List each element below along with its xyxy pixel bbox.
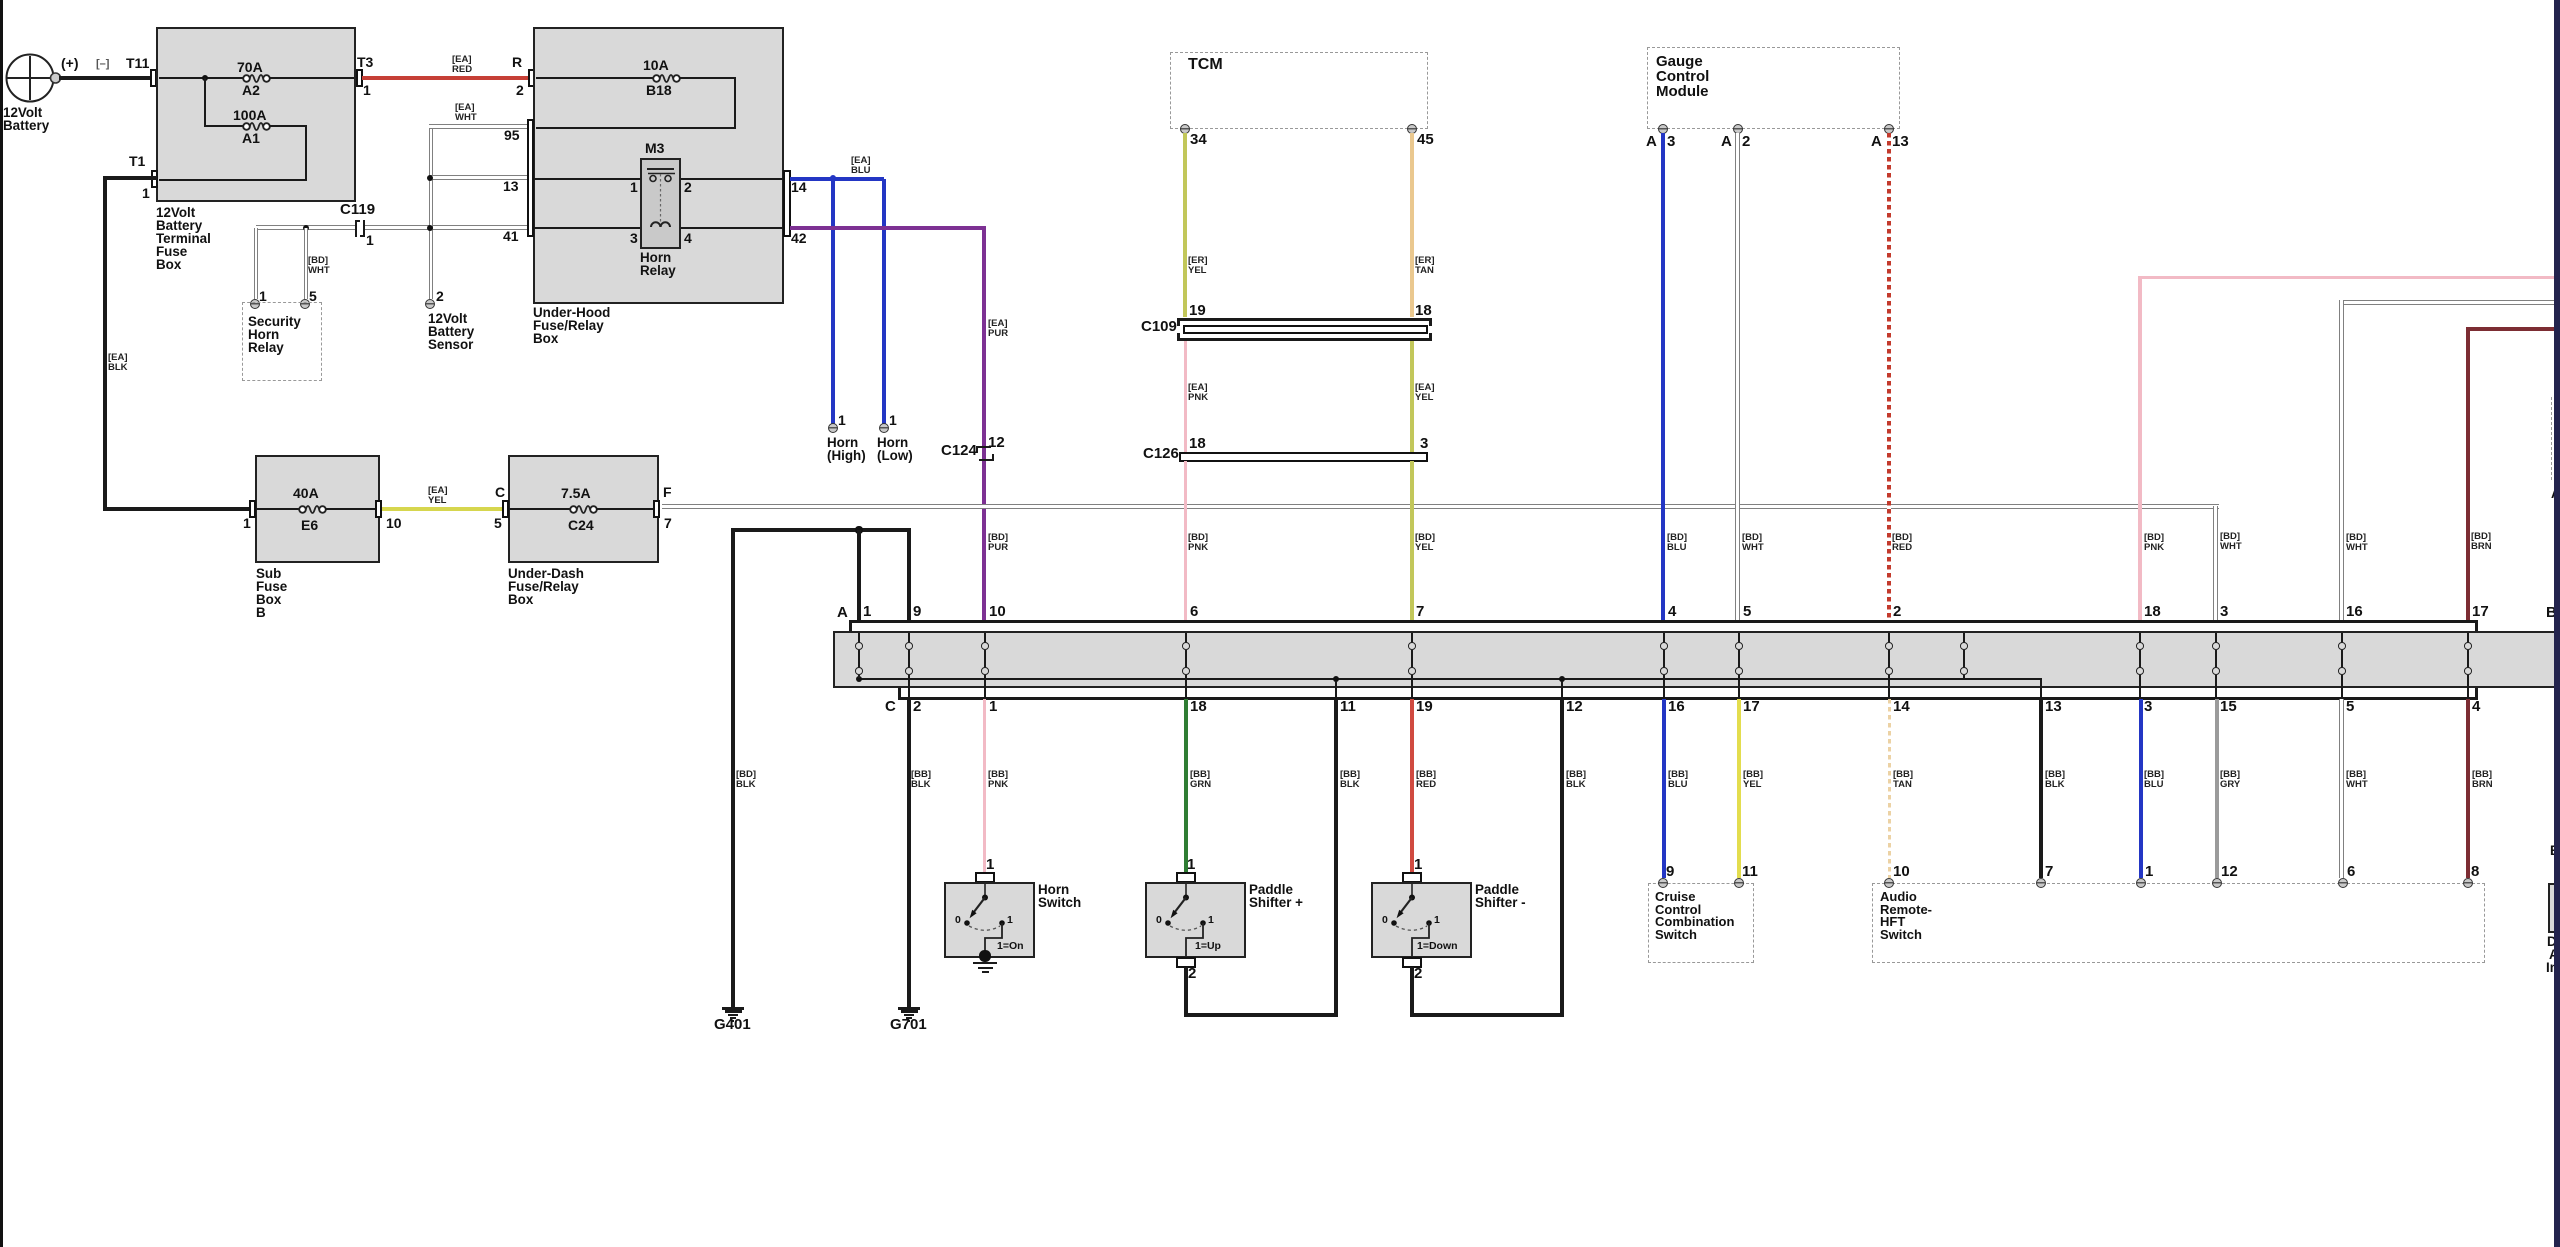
pin 5 Security Horn Relay [300, 299, 310, 309]
relay pin 4 [684, 232, 692, 246]
fuse box label [156, 206, 211, 271]
horn switch ground symbol [973, 962, 997, 965]
Gauge Control Module label [1656, 54, 1709, 99]
label E6 [301, 519, 318, 533]
pin 10 label [1893, 865, 1910, 880]
pin 2 label [436, 290, 444, 304]
pin 7 label [664, 517, 672, 531]
wire [BB] BLK from C11 [1334, 699, 1338, 1017]
pin 95 [504, 129, 520, 143]
pin 34 label [1190, 133, 1207, 148]
bus connector C bar [898, 697, 2478, 700]
label EA YEL [428, 486, 448, 506]
label C [495, 486, 505, 500]
battery label [3, 106, 49, 132]
wire B18 right [679, 77, 736, 79]
wire relay pin2 to pin14 [681, 178, 784, 180]
wire to pin 13 [429, 175, 527, 180]
connector C109 [1177, 318, 1432, 321]
wire [BD] BRN horizontal [2467, 327, 2560, 331]
wire to bus A1 [857, 530, 861, 622]
Audio Remote-HFT Switch box [1872, 883, 2485, 963]
label 1=On [997, 941, 1024, 951]
under-hood box label [533, 306, 610, 345]
label C124 [941, 444, 977, 459]
bus C pin 1 [989, 700, 997, 715]
label ER TAN [1415, 256, 1435, 276]
terminal pin 10 [375, 500, 382, 518]
label T3 [357, 56, 373, 70]
terminal T11 [150, 69, 157, 87]
label EA BLK [108, 353, 128, 373]
bus pin stub A18/C3 [2139, 633, 2141, 643]
junction dot A1 [856, 676, 863, 683]
bus pin stub A7/C19 [1411, 633, 1413, 643]
relay pin 3 [630, 232, 638, 246]
ground G401 [722, 1007, 744, 1010]
label BD PNK [1188, 533, 1208, 553]
cut-off label A [2551, 487, 2560, 500]
wire A2 to T3 [269, 77, 354, 79]
wire down [734, 77, 736, 129]
bus A pin 2 [1893, 605, 1901, 620]
pin 41 [503, 230, 519, 244]
bus C pin 14 [1893, 700, 1910, 715]
bus A pin 1 [863, 605, 871, 620]
pin 1 label [1187, 858, 1195, 873]
Cruise Control Combination Switch label [1655, 891, 1734, 941]
dashed fragment right edge [2551, 397, 2552, 480]
bus A pin 17 [2472, 605, 2489, 620]
Paddle Shifter + label [1249, 883, 1303, 909]
wire C24 to pin F [596, 508, 656, 510]
label 1=Up [1195, 941, 1221, 951]
Paddle Shifter - label [1475, 883, 1526, 909]
Horn Switch label [1038, 883, 1081, 909]
wire R to fuse B18 [536, 77, 656, 79]
connector bracket pins 95/13/41 [527, 119, 535, 237]
label 1=Down [1417, 941, 1458, 951]
pin 11 [1734, 878, 1744, 888]
pin 5 label [309, 290, 317, 304]
wire to relay pin 1 [254, 228, 259, 299]
wire [BB] RED to Paddle Shifter - [1410, 699, 1414, 872]
bus C pin 19 [1416, 700, 1433, 715]
pin 8 [2463, 878, 2473, 888]
ground G701 [898, 1007, 920, 1010]
pin 1 T3 [363, 84, 371, 98]
Paddle Shifter + internals [1126, 882, 1246, 958]
label BD YEL [1415, 533, 1435, 553]
junction dot [855, 526, 862, 533]
bus pin stub A5/C17 [1738, 633, 1740, 643]
wire to fuse E6 [256, 508, 302, 510]
bus pin stub A1 [858, 633, 860, 643]
wire [BD] PNK vertical [2138, 276, 2141, 621]
Security Horn Relay box [242, 302, 322, 381]
label C [885, 700, 896, 715]
junction dot [427, 175, 433, 181]
bus pin stub (ground) [1963, 633, 1965, 643]
bus pin stub A2/C14 [1888, 633, 1890, 643]
wire [EA] PNK [1184, 341, 1187, 453]
label (+) [61, 57, 79, 71]
wire C119 to pin 41 [365, 225, 527, 230]
wire [EA] PUR vertical [982, 226, 986, 621]
wire [EA] WHT vertical [429, 124, 434, 299]
terminal T1 [151, 170, 158, 188]
wire pin 2 down [1184, 967, 1188, 1017]
relay pin 2 [684, 181, 692, 195]
wire [ER] TAN [1410, 133, 1414, 317]
terminal pin 2 Paddle Shifter - [1402, 957, 1422, 968]
bus C pin 3 [2144, 700, 2152, 715]
pin 1 T1 [142, 187, 150, 201]
label C109 [1141, 320, 1177, 335]
pin 9 [1658, 878, 1668, 888]
wire [BB] YEL to Cruise pin 11 [1737, 699, 1741, 878]
pin 1 Horn High [828, 423, 838, 433]
fuse E6 40A [296, 501, 329, 518]
wire [BD] WHT from F/7 across [662, 504, 2219, 509]
pin 8 label [2471, 865, 2479, 880]
label R [512, 56, 522, 70]
wire [EA] RED [362, 76, 528, 80]
terminal pin 1 Paddle Shifter + [1176, 872, 1196, 883]
wire to C12 column [1410, 1013, 1564, 1017]
Cruise Control Combination Switch box [1648, 883, 1754, 963]
pin 3 [1667, 135, 1675, 150]
wire [BB] BLK to Audio pin 7 [2039, 699, 2043, 878]
bus A pin 18 [2144, 605, 2161, 620]
12Volt Battery Sensor label [428, 312, 474, 351]
bus pin stub A9/C2 [908, 633, 910, 643]
pin 2 R [516, 84, 524, 98]
bus C pin 15 [2220, 700, 2237, 715]
pin 34 TCM [1180, 124, 1190, 134]
pin 1 Security Horn Relay [250, 299, 260, 309]
label BD PNK [2144, 533, 2164, 553]
pin 1 label [986, 858, 994, 873]
pin 6 [2338, 878, 2348, 888]
relay internals [640, 158, 681, 249]
bus pin stub A4/C16 [1663, 633, 1665, 643]
pin 1 label [838, 414, 846, 428]
label F [663, 486, 672, 500]
junction dot [427, 225, 433, 231]
label A [1721, 135, 1732, 150]
fuse A1 100A [240, 118, 273, 135]
pin A13 Gauge [1884, 124, 1894, 134]
Paddle Shifter - internals [1352, 882, 1472, 958]
pin A2 Gauge [1733, 124, 1743, 134]
terminal R [528, 69, 535, 87]
pin 1 label [1414, 858, 1422, 873]
terminal T3 [356, 69, 363, 87]
wire [BD] BLU [1661, 133, 1665, 621]
bus A pin 16 [2346, 605, 2363, 620]
wire to bus A9 [907, 530, 911, 622]
label [-] [96, 59, 109, 70]
bus connector A bar [849, 620, 2478, 623]
pin 10 label [386, 517, 402, 531]
bus A pin 6 [1190, 605, 1198, 620]
wire [EA] BLU horizontal [790, 177, 884, 181]
wire [BB] BRN to Audio pin 8 [2466, 699, 2470, 878]
label B18 [646, 84, 672, 98]
terminal pin 1 [249, 500, 256, 518]
pin 1 label [2145, 865, 2153, 880]
label 1 [1434, 915, 1440, 925]
wire [BD] WHT horizontal [256, 225, 355, 230]
label 1 [1208, 915, 1214, 925]
bus A pin 9 [913, 605, 921, 620]
bus C pin 4 [2472, 700, 2480, 715]
label BD WHT [1742, 533, 1764, 553]
Security Horn Relay label [248, 315, 301, 354]
wire [BB] BLU to Cruise pin 9 [1662, 699, 1666, 878]
Horn Low label [877, 436, 913, 462]
wire to C11 column [1184, 1013, 1338, 1017]
wire T1 stub [103, 176, 157, 180]
pin 13 [1892, 135, 1909, 150]
label BD WHT [2346, 533, 2368, 553]
wire battery to T11 [59, 76, 152, 80]
Under-Hood Fuse/Relay Box [533, 27, 784, 304]
label EA YEL [1415, 383, 1435, 403]
bus C pin 5 [2346, 700, 2354, 715]
wire A1 right [269, 125, 306, 127]
pin 19 label [1189, 304, 1206, 319]
label G401 [714, 1018, 751, 1033]
wire E6 to pin 10 [325, 508, 377, 510]
wire [BB] WHT to Audio pin 6 [2339, 699, 2344, 878]
wire [EA] YEL [382, 507, 504, 510]
fuse A2 70A [240, 70, 273, 87]
Paddle Shifter + box [1145, 882, 1246, 958]
label C126 [1143, 447, 1179, 462]
Paddle Shifter - box [1371, 882, 1472, 958]
wire [BD] BLK to G401 [731, 528, 735, 1008]
wire to relay pin 5 [304, 228, 309, 299]
label 0 [1382, 915, 1388, 925]
label D [2547, 935, 2557, 948]
bus C pin 13 [2045, 700, 2062, 715]
label A1 [242, 132, 260, 146]
bus pin stub C11 [1335, 681, 1337, 697]
pin 2 label [1414, 967, 1422, 982]
wire [BD] WHT horizontal [2341, 300, 2560, 305]
pin 18 label [1189, 437, 1206, 452]
label A [1871, 135, 1882, 150]
wire [BD] BRN vertical [2466, 327, 2470, 621]
pin 2 12Volt Battery Sensor [425, 299, 435, 309]
right viewer strip [2554, 0, 2560, 1247]
label 0 [955, 915, 961, 925]
wire to pin 95 [536, 127, 736, 129]
wire [BD] RED dashed [1887, 133, 1891, 621]
label T1 [129, 155, 145, 169]
wire pin41 to relay pin3 [534, 227, 640, 229]
pin 1 Horn Low [879, 423, 889, 433]
label EA PNK [1188, 383, 1208, 403]
wire [EA] BLK horizontal [103, 507, 253, 511]
wire [ER] YEL [1183, 133, 1187, 317]
pin 2 label [1188, 967, 1196, 982]
cut-off component at right edge [2548, 883, 2557, 933]
bus A pin 7 [1416, 605, 1424, 620]
bus pin stub C12 [1561, 681, 1563, 697]
wire to Horn High [831, 179, 835, 424]
wire to Horn Low [882, 179, 886, 424]
pin 45 TCM [1407, 124, 1417, 134]
connector C126 [1179, 452, 1428, 462]
pin 13 [503, 180, 519, 194]
pin 7 label [2045, 865, 2053, 880]
pin 1 C119 [366, 234, 374, 248]
TCM box [1170, 52, 1428, 129]
wire [BD] WHT [1735, 133, 1740, 621]
wire relay pin4 to pin42 [681, 227, 784, 229]
12Volt Battery Terminal Fuse Box [156, 27, 356, 202]
wire [EA] BLK vertical [103, 177, 107, 511]
label T11 [126, 57, 149, 71]
wire [BB] BLK from C12 [1560, 699, 1564, 1017]
pin 12 label [2221, 865, 2238, 880]
junction dot C12 [1559, 676, 1566, 683]
bus C pin 2 [913, 700, 921, 715]
bus A pin 3 [2220, 605, 2228, 620]
junction dot blue [830, 175, 837, 182]
ground dot [979, 950, 990, 961]
label A [2549, 948, 2559, 961]
pin 12 C124 [988, 436, 1005, 451]
pin A3 Gauge [1658, 124, 1668, 134]
bus pin stub A6/C18 [1185, 633, 1187, 643]
bus C pin 16 [1668, 700, 1685, 715]
pin 1 label [259, 290, 267, 304]
relay M3 Horn Relay [640, 158, 681, 249]
pin 3 label [1420, 437, 1428, 452]
label BD BRN [2471, 532, 2492, 552]
Horn High label [827, 436, 866, 462]
label 1 [1007, 915, 1013, 925]
pin 1 label [243, 517, 251, 531]
pin 7 [2036, 878, 2046, 888]
wire [BD] WHT vertical [2339, 300, 2344, 621]
label BD WHT [2220, 532, 2242, 552]
wire to fuse C24 [509, 508, 573, 510]
pin 11 label [1742, 865, 1758, 880]
relay pin 1 [630, 181, 638, 195]
pin 6 label [2347, 865, 2355, 880]
label G701 [890, 1018, 927, 1033]
fuse C24 7.5A [567, 501, 600, 518]
terminal pin 5 C [502, 500, 509, 518]
label A [837, 606, 848, 621]
label EA BLU [851, 156, 871, 176]
wire down to A1 [204, 78, 206, 126]
junction dot C11 [1333, 676, 1340, 683]
Under-Dash box label [508, 567, 584, 606]
pin 1 label [889, 414, 897, 428]
label 70A [237, 61, 263, 75]
terminal pin 1 Paddle Shifter - [1402, 872, 1422, 883]
label B [2546, 606, 2557, 621]
label C24 [568, 519, 594, 533]
bus A pin 4 [1668, 605, 1676, 620]
bus pin stub A10/C1 [984, 633, 986, 643]
Horn Relay label [640, 251, 676, 277]
wire [BB] PNK to Horn Switch [983, 699, 986, 872]
pin 42 [791, 232, 807, 246]
Gauge Control Module box [1647, 47, 1900, 129]
left page border [0, 0, 3, 1247]
bus gray body [833, 631, 2560, 688]
label A [1646, 135, 1657, 150]
wire down to bus A3 [2213, 506, 2218, 622]
TCM label [1188, 57, 1223, 73]
label 40A [293, 487, 319, 501]
pin 1 [2136, 878, 2146, 888]
wire [BD] PNK [1184, 461, 1187, 621]
wire [BB] GRY to Audio pin 12 [2215, 699, 2219, 878]
bus C pin 12 [1566, 700, 1583, 715]
bus C pin 11 [1340, 700, 1356, 715]
pin 2 [1742, 135, 1750, 150]
wire [BB] TAN dashed to Audio pin 10 [1888, 699, 1891, 878]
terminal pin 1 Horn Switch [975, 872, 995, 883]
Sub Fuse Box B [255, 455, 380, 563]
Horn Switch internals [925, 882, 1045, 958]
wire T11 to fuse A2 [159, 77, 246, 79]
label 100A [233, 109, 266, 123]
pin 10 [1884, 878, 1894, 888]
bus C pin 17 [1743, 700, 1760, 715]
label 0 [1156, 915, 1162, 925]
pin 14 [791, 181, 807, 195]
connector C119 [355, 220, 357, 237]
pin 18 label [1415, 304, 1432, 319]
pin 9 label [1666, 865, 1674, 880]
label BD BLK [736, 770, 756, 790]
bus C pin 18 [1190, 700, 1207, 715]
wire [BB] GRN to Paddle Shifter + [1184, 699, 1188, 872]
connector C124 [976, 446, 991, 448]
wire pin 2 down [1410, 967, 1414, 1017]
junction dot [303, 225, 309, 231]
terminal pin 2 Paddle Shifter + [1176, 957, 1196, 968]
battery: 12Volt Battery symbol [2, 51, 66, 105]
wire down [305, 125, 307, 180]
bus internal ground line [859, 678, 2042, 680]
label BD PUR [988, 533, 1008, 553]
wire [BD] YEL [1410, 461, 1414, 621]
bus A pin 5 [1743, 605, 1751, 620]
ground wire horizontal [731, 528, 911, 532]
bus pin stub A3/C15 [2215, 633, 2217, 643]
label In [2546, 961, 2558, 974]
connector bracket pins 14/42 [783, 170, 791, 237]
label 7.5A [561, 487, 591, 501]
bus pin stub A16/C5 [2341, 633, 2343, 643]
Sub Fuse Box B label [256, 567, 287, 619]
terminal pin 7 F [653, 500, 660, 518]
label A2 [242, 84, 260, 98]
wire [BB] BLU to Audio pin 1 [2139, 699, 2143, 878]
Under-Dash Fuse/Relay Box [508, 455, 659, 563]
wire to fuse A1 [204, 125, 244, 127]
